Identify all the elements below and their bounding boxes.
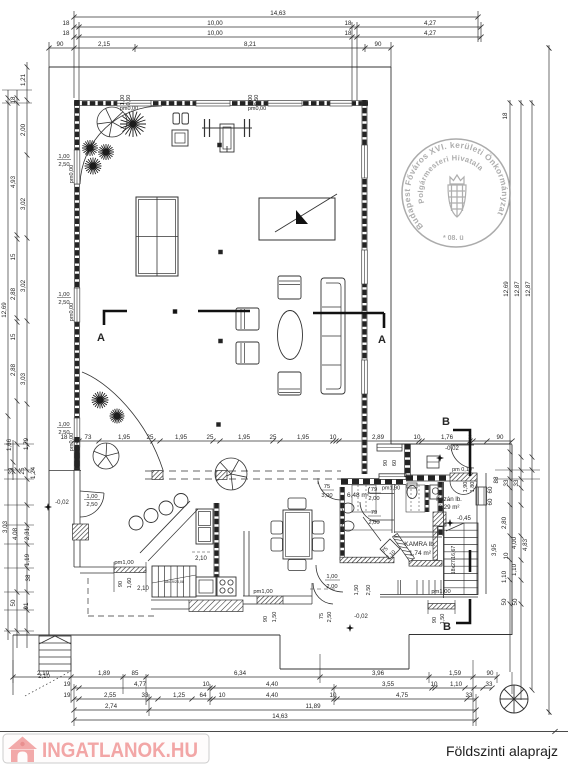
dimension line right 12,87 b xyxy=(531,100,533,690)
wall right of stove xyxy=(243,531,245,596)
svg-text:50: 50 xyxy=(501,598,508,605)
wall left of hall xyxy=(74,100,76,470)
svg-text:6,48 m²: 6,48 m² xyxy=(347,492,370,499)
dimension line top 90/2,15/8,21/90 xyxy=(49,47,391,49)
svg-text:1,00: 1,00 xyxy=(58,154,69,160)
dimension line left col mid xyxy=(16,90,18,648)
svg-text:1,10: 1,10 xyxy=(450,681,463,688)
kitchen wall xyxy=(213,503,215,577)
dimension row bottom 4 xyxy=(74,709,476,711)
svg-text:10: 10 xyxy=(414,434,421,441)
svg-text:90: 90 xyxy=(375,41,382,48)
svg-text:1,00: 1,00 xyxy=(86,494,97,500)
svg-text:90: 90 xyxy=(497,434,504,441)
svg-text:3,55: 3,55 xyxy=(382,681,395,688)
kamra diagonal wall xyxy=(393,534,415,562)
svg-text:88: 88 xyxy=(493,476,500,483)
kamra door swing line xyxy=(363,517,381,541)
tree circle large top xyxy=(97,107,127,137)
svg-text:18: 18 xyxy=(345,20,352,27)
dimension row bottom 3 xyxy=(74,698,476,700)
svg-text:10: 10 xyxy=(203,681,210,688)
svg-text:75: 75 xyxy=(324,484,330,490)
svg-text:1,90: 1,90 xyxy=(463,482,469,493)
armchair left upper xyxy=(236,308,259,330)
svg-text:60: 60 xyxy=(487,498,494,505)
dimension line top 14,63 xyxy=(74,16,478,18)
column dot a xyxy=(218,143,222,147)
svg-text:38: 38 xyxy=(25,574,32,581)
counter unit bottom xyxy=(196,577,216,596)
terrace quarter arc xyxy=(80,106,162,184)
dashed duct wc xyxy=(406,485,425,512)
hatched strip bottom-left xyxy=(151,599,189,601)
svg-text:-0,02: -0,02 xyxy=(445,446,459,452)
svg-text:3,03: 3,03 xyxy=(2,520,9,533)
elevation -0,02 entry xyxy=(436,454,444,462)
svg-text:2,50: 2,50 xyxy=(327,612,333,623)
window in right wall xyxy=(476,487,487,505)
svg-text:pm1,00: pm1,00 xyxy=(114,560,133,566)
svg-text:15: 15 xyxy=(10,253,17,260)
svg-text:pm1,00: pm1,00 xyxy=(253,589,272,595)
svg-text:6,34: 6,34 xyxy=(234,670,247,677)
svg-text:1,80: 1,80 xyxy=(470,482,476,493)
svg-text:10: 10 xyxy=(503,552,510,559)
svg-text:* 08. ü: * 08. ü xyxy=(443,235,464,242)
left pillar xyxy=(73,524,89,540)
svg-text:90: 90 xyxy=(432,617,438,623)
svg-text:2,88: 2,88 xyxy=(10,287,17,300)
interior stairs 18x19 xyxy=(152,566,196,597)
left wall below pillar xyxy=(73,540,75,567)
fridge unit xyxy=(196,509,213,544)
svg-text:4,83: 4,83 xyxy=(522,538,529,551)
svg-text:2,15: 2,15 xyxy=(98,41,111,48)
stairs 18x27 xyxy=(443,482,445,598)
svg-text:2,10: 2,10 xyxy=(37,670,50,677)
svg-text:64: 64 xyxy=(200,692,207,699)
dimension line left col inner xyxy=(26,62,28,648)
elevation -0,02 bottom xyxy=(346,624,354,632)
window openings right wall xyxy=(362,145,368,178)
watermark house icon xyxy=(8,737,37,763)
svg-text:0,50: 0,50 xyxy=(126,95,132,106)
table 2x2 xyxy=(136,197,178,276)
svg-text:1,95: 1,95 xyxy=(297,434,310,441)
svg-text:90: 90 xyxy=(383,460,389,466)
svg-text:2,00: 2,00 xyxy=(368,520,379,526)
svg-text:A: A xyxy=(97,332,105,344)
svg-text:33: 33 xyxy=(486,681,493,688)
extension lines top xyxy=(73,11,75,98)
window openings top wall xyxy=(117,100,151,106)
kamra door leaf diagonal xyxy=(380,539,400,559)
svg-text:1,25: 1,25 xyxy=(173,692,186,699)
svg-text:73: 73 xyxy=(85,434,92,441)
svg-text:2,31: 2,31 xyxy=(24,527,31,540)
door bottom hall arc xyxy=(316,565,343,592)
dimension line right outer xyxy=(548,45,550,715)
svg-text:3,02: 3,02 xyxy=(20,279,27,292)
wall right of hall xyxy=(361,100,363,474)
svg-text:2,55: 2,55 xyxy=(104,692,117,699)
svg-text:1,74 m²: 1,74 m² xyxy=(409,550,432,557)
svg-text:75: 75 xyxy=(319,613,325,619)
svg-text:4,40: 4,40 xyxy=(266,681,279,688)
dimension row bottom 5 xyxy=(74,719,476,721)
tree spiky small a xyxy=(82,140,98,156)
svg-text:4,27: 4,27 xyxy=(424,30,437,37)
elevation mark -0,02 left xyxy=(44,503,52,511)
tree circle lower mid xyxy=(215,458,247,490)
dining table xyxy=(283,510,312,559)
svg-text:85: 85 xyxy=(132,670,139,677)
svg-text:18x19/23,08: 18x19/23,08 xyxy=(164,580,184,584)
svg-text:-0,45: -0,45 xyxy=(457,516,471,522)
svg-text:10: 10 xyxy=(431,681,438,688)
terrace step line left xyxy=(49,470,81,472)
dimension line right 12,87 a xyxy=(520,100,522,700)
svg-text:KAMRA lb.: KAMRA lb. xyxy=(404,541,436,548)
svg-text:pm0,00: pm0,00 xyxy=(248,106,266,112)
svg-text:2,74: 2,74 xyxy=(105,703,118,710)
ping-pong table with cue xyxy=(259,198,335,240)
kitchen diagonal counter xyxy=(140,501,190,553)
sofa right xyxy=(321,278,345,394)
svg-text:1,60: 1,60 xyxy=(127,578,133,589)
svg-text:4,93: 4,93 xyxy=(10,175,17,188)
stamp coat of arms xyxy=(448,175,466,217)
svg-text:2,10: 2,10 xyxy=(137,586,149,592)
tree spiky top xyxy=(120,111,146,137)
svg-text:A: A xyxy=(378,334,386,346)
svg-text:2,80: 2,80 xyxy=(501,516,508,529)
svg-text:12,69: 12,69 xyxy=(1,302,8,318)
svg-text:1,95: 1,95 xyxy=(175,434,188,441)
window near entry xyxy=(377,444,402,451)
svg-text:Kazán lb.: Kazán lb. xyxy=(436,496,462,503)
tree spiky small c xyxy=(85,158,102,175)
svg-text:90: 90 xyxy=(263,616,269,622)
dimension line right 12,69 xyxy=(509,100,511,672)
svg-text:25: 25 xyxy=(270,434,277,441)
bench press machine xyxy=(202,127,252,129)
svg-text:19: 19 xyxy=(64,692,71,699)
svg-text:10,00: 10,00 xyxy=(207,30,223,37)
svg-text:pm1,90: pm1,90 xyxy=(382,486,400,492)
svg-text:1,50: 1,50 xyxy=(272,612,278,623)
wall above WC xyxy=(404,444,406,477)
stove xyxy=(217,577,236,596)
svg-text:3,95: 3,95 xyxy=(491,543,498,556)
svg-text:33: 33 xyxy=(142,692,149,699)
svg-text:INGATLANOK.HU: INGATLANOK.HU xyxy=(42,739,198,762)
column dot b xyxy=(219,250,223,254)
section line A left bracket xyxy=(104,311,127,325)
svg-text:2,89: 2,89 xyxy=(372,434,385,441)
dimension row hall bottom xyxy=(74,440,512,442)
svg-text:18: 18 xyxy=(502,112,509,119)
lower building bottom wall xyxy=(340,557,394,563)
svg-text:33: 33 xyxy=(8,467,15,474)
svg-text:pm0,00: pm0,00 xyxy=(69,303,75,321)
svg-text:79: 79 xyxy=(371,487,377,493)
WC toilet xyxy=(407,486,417,499)
entry right wall xyxy=(476,473,478,594)
svg-text:2,88: 2,88 xyxy=(10,363,17,376)
kamra top wall xyxy=(394,531,442,533)
svg-text:1,95: 1,95 xyxy=(118,434,131,441)
site boundary outline xyxy=(49,66,391,68)
svg-text:18: 18 xyxy=(345,30,352,37)
column dot c xyxy=(219,339,223,343)
right extension ticks xyxy=(495,469,540,471)
svg-text:91: 91 xyxy=(23,602,30,609)
svg-text:1,59: 1,59 xyxy=(449,670,462,677)
tree circle lower left xyxy=(93,443,119,469)
elevation -0,45 stairs xyxy=(446,519,454,527)
left lower dim labels xyxy=(12,440,14,480)
kazan left wall xyxy=(424,485,426,512)
boiler xyxy=(430,485,442,499)
dashed duct bath xyxy=(352,485,376,512)
dotted diagonal xyxy=(25,671,71,696)
svg-text:4,77: 4,77 xyxy=(134,681,147,688)
column dot d xyxy=(217,423,221,427)
svg-text:18: 18 xyxy=(63,30,70,37)
armchair left lower xyxy=(236,342,259,364)
lower building left wall xyxy=(339,487,341,560)
svg-text:pm1,00: pm1,00 xyxy=(431,589,450,595)
svg-text:3,29 m²: 3,29 m² xyxy=(439,504,460,511)
door lower-left of hall xyxy=(80,491,104,493)
kitchen plates xyxy=(129,516,143,530)
svg-text:2,10: 2,10 xyxy=(195,556,207,562)
tree spiky small b xyxy=(98,144,114,160)
svg-text:90: 90 xyxy=(57,41,64,48)
svg-text:50: 50 xyxy=(512,598,519,605)
svg-text:3,03: 3,03 xyxy=(20,372,27,385)
svg-text:4,40: 4,40 xyxy=(266,692,279,699)
window sill top wall xyxy=(379,474,406,480)
section line B bottom xyxy=(456,599,470,623)
watermark bar xyxy=(3,734,209,763)
kazan window xyxy=(427,456,439,468)
door arc kitchen right xyxy=(311,583,313,604)
svg-text:4,08: 4,08 xyxy=(12,527,19,540)
svg-text:15: 15 xyxy=(10,333,17,340)
svg-text:60: 60 xyxy=(487,486,494,493)
official stamp xyxy=(402,139,510,247)
svg-text:10,00: 10,00 xyxy=(207,20,223,27)
section line A dot xyxy=(173,310,177,314)
svg-text:18: 18 xyxy=(63,20,70,27)
kazan corner block xyxy=(433,512,446,526)
svg-text:18: 18 xyxy=(10,96,17,103)
svg-text:60: 60 xyxy=(392,460,398,466)
svg-text:12,87: 12,87 xyxy=(514,281,521,297)
svg-text:-0,02: -0,02 xyxy=(55,500,69,506)
svg-text:3,96: 3,96 xyxy=(372,670,385,677)
wall top of hall xyxy=(74,100,368,102)
svg-text:33: 33 xyxy=(466,692,473,699)
compass rose xyxy=(500,685,528,713)
svg-text:25: 25 xyxy=(207,434,214,441)
dining chairs xyxy=(288,498,306,509)
svg-text:11,89: 11,89 xyxy=(305,703,321,710)
svg-text:1,00: 1,00 xyxy=(326,574,337,580)
svg-text:18: 18 xyxy=(61,434,68,441)
svg-text:3,00: 3,00 xyxy=(321,493,332,499)
oval table xyxy=(278,311,303,360)
bath door arc xyxy=(317,478,319,484)
section line A mid segment xyxy=(198,310,250,313)
wash basins xyxy=(342,503,354,513)
svg-text:1,76: 1,76 xyxy=(441,434,454,441)
outside staircase xyxy=(39,636,71,671)
kazan right wall xyxy=(437,482,439,536)
left extension ticks xyxy=(4,443,34,445)
svg-text:1,24: 1,24 xyxy=(30,466,37,479)
svg-text:Földszinti alaprajz: Földszinti alaprajz xyxy=(446,743,558,759)
svg-text:18x27/16,67: 18x27/16,67 xyxy=(451,546,457,575)
lower building top wall xyxy=(341,478,406,480)
svg-text:1,21: 1,21 xyxy=(20,73,27,86)
dimension line left col outer 12,69 xyxy=(7,90,9,640)
svg-text:12,69: 12,69 xyxy=(503,281,510,297)
svg-text:10: 10 xyxy=(330,434,337,441)
svg-text:0,50: 0,50 xyxy=(254,95,260,106)
svg-text:1,10: 1,10 xyxy=(501,570,508,583)
svg-text:4,75: 4,75 xyxy=(396,692,409,699)
tree spiky lower b xyxy=(110,409,125,424)
svg-text:14,63: 14,63 xyxy=(270,10,286,17)
svg-text:2,50: 2,50 xyxy=(58,162,69,168)
svg-text:1,89: 1,89 xyxy=(98,670,111,677)
svg-text:90: 90 xyxy=(487,670,494,677)
svg-text:1,95: 1,95 xyxy=(238,434,251,441)
svg-text:33: 33 xyxy=(513,479,520,486)
svg-text:50: 50 xyxy=(10,599,17,606)
svg-text:19: 19 xyxy=(64,681,71,688)
svg-text:90: 90 xyxy=(118,581,124,587)
window openings left wall xyxy=(74,150,80,184)
svg-text:2,00: 2,00 xyxy=(20,123,27,136)
svg-text:10: 10 xyxy=(330,692,337,699)
dimension row bottom 2 xyxy=(74,687,492,689)
svg-text:2,00: 2,00 xyxy=(368,496,379,502)
svg-text:2,50: 2,50 xyxy=(366,585,372,596)
dimension line top 18/10,00/18/4,27 row2 xyxy=(74,36,481,38)
armchair bottom xyxy=(278,372,301,395)
wall left lower stub xyxy=(73,437,75,470)
svg-text:1,50: 1,50 xyxy=(440,614,446,625)
section line B top xyxy=(453,430,470,476)
svg-text:14,63: 14,63 xyxy=(272,713,288,720)
svg-text:-0,02: -0,02 xyxy=(354,614,368,620)
svg-text:10: 10 xyxy=(219,692,226,699)
wc door arc a xyxy=(370,493,394,495)
armchair top xyxy=(278,276,301,299)
svg-text:B: B xyxy=(442,416,450,428)
svg-text:1,00: 1,00 xyxy=(58,422,69,428)
svg-text:pm0,00: pm0,00 xyxy=(69,165,75,183)
svg-text:3,02: 3,02 xyxy=(20,197,27,210)
svg-text:2,50: 2,50 xyxy=(86,502,97,508)
dashed guide lines bottom-left xyxy=(87,578,89,616)
overhang dashed lines with pillars xyxy=(145,470,341,472)
tree spiky lower a xyxy=(92,392,109,409)
svg-text:1,19: 1,19 xyxy=(24,553,31,566)
title separator line xyxy=(0,731,568,733)
svg-text:33: 33 xyxy=(503,479,510,486)
dumbbell rack xyxy=(173,113,179,124)
svg-text:1,00: 1,00 xyxy=(58,292,69,298)
svg-text:4,27: 4,27 xyxy=(424,20,437,27)
interior wall bath/wc xyxy=(391,484,393,533)
dimension line top 18/10,00/18/4,27 row1 xyxy=(74,26,481,28)
svg-text:2,50: 2,50 xyxy=(58,300,69,306)
svg-text:79: 79 xyxy=(371,510,377,516)
svg-text:1,50: 1,50 xyxy=(354,585,360,596)
svg-text:1,66: 1,66 xyxy=(6,438,13,451)
svg-text:12,87: 12,87 xyxy=(525,281,532,297)
svg-text:8,21: 8,21 xyxy=(244,41,257,48)
bottom extension lines xyxy=(12,660,14,683)
section line A right segment xyxy=(313,312,384,315)
big door arc hall bottom-left xyxy=(82,372,163,470)
dimension row bottom 1 xyxy=(13,676,497,678)
entry door arc xyxy=(451,445,474,468)
